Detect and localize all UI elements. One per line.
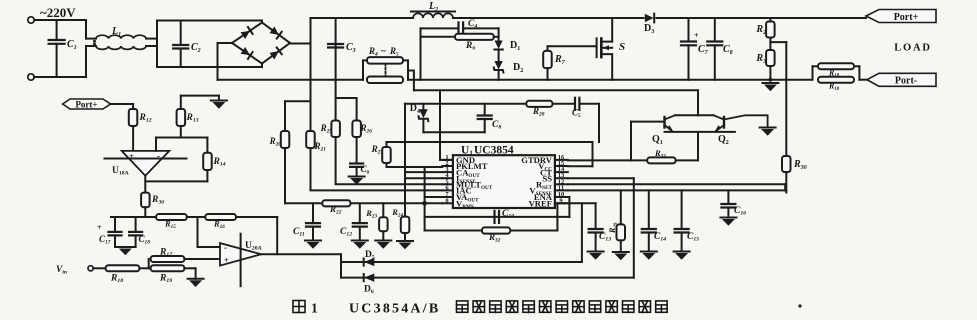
svg-text:+: + (97, 223, 102, 232)
svg-text:Port+: Port+ (894, 12, 919, 23)
svg-text:UC3854: UC3854 (474, 145, 514, 157)
svg-text:UC3854A/B: UC3854A/B (349, 302, 440, 317)
svg-text:LOAD: LOAD (894, 43, 932, 54)
svg-text:-: - (224, 243, 227, 253)
svg-text:+: + (129, 152, 134, 161)
svg-text:+: + (694, 31, 699, 40)
svg-text:VREF: VREF (529, 199, 552, 209)
svg-text:1: 1 (311, 301, 318, 316)
svg-text:Port-: Port- (895, 76, 917, 87)
svg-text:Port+: Port+ (75, 99, 97, 109)
svg-text:~220V: ~220V (40, 5, 76, 20)
svg-text:S: S (619, 41, 625, 53)
svg-text:+: + (224, 256, 229, 265)
svg-text:GTDRV: GTDRV (521, 155, 553, 165)
svg-text:SS: SS (542, 173, 552, 183)
svg-text:~: ~ (381, 46, 386, 56)
